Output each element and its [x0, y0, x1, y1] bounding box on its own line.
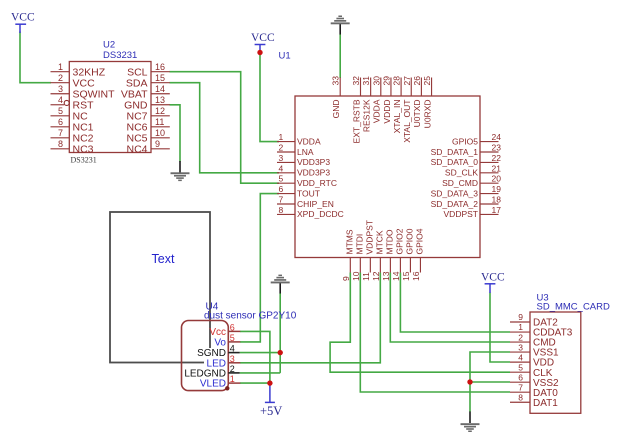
- svg-text:19: 19: [492, 184, 502, 194]
- U2 pin 13 GND: [124, 95, 170, 111]
- svg-text:13: 13: [155, 95, 165, 105]
- U1 pin 1 VDDA: [277, 132, 321, 146]
- svg-text:TOUT: TOUT: [297, 188, 320, 198]
- svg-text:VCC: VCC: [251, 32, 275, 44]
- wire U4 LEDGND to ground vertical: [240, 372, 281, 374]
- svg-text:33: 33: [331, 76, 341, 86]
- svg-text:SD_DATA_0: SD_DATA_0: [431, 157, 479, 167]
- svg-text:SD_CLK: SD_CLK: [445, 168, 478, 178]
- U1 pin 14 GPIO2 (bottom): [391, 228, 405, 281]
- svg-text:Text: Text: [152, 252, 175, 266]
- U2 pin 2 VCC: [51, 73, 96, 89]
- U1 pin 33 GND (top): [331, 76, 341, 119]
- U3 pin 9 DAT2: [510, 312, 558, 328]
- white patch under SGND label: [194, 348, 228, 361]
- svg-text:NC3: NC3: [73, 143, 94, 155]
- U2 pin 4 RST: [51, 95, 95, 111]
- svg-text:14: 14: [391, 271, 401, 281]
- wire U3 VSS1 down to ground: [470, 352, 510, 412]
- wire U4 SGND to ground junction: [240, 352, 281, 354]
- svg-text:22: 22: [492, 153, 502, 163]
- svg-text:16: 16: [411, 271, 421, 281]
- U3 pin 5 CLK: [510, 362, 553, 378]
- svg-text:VDDPST: VDDPST: [365, 220, 375, 254]
- svg-text:15: 15: [401, 271, 411, 281]
- svg-text:28: 28: [392, 76, 402, 86]
- svg-text:29: 29: [381, 76, 391, 86]
- svg-text:15: 15: [155, 73, 165, 83]
- wire U1 MTDI pin10 to U3 DAT0: [360, 273, 510, 393]
- wire U1 GPIO2 pin14 to U3 CDDAT3: [400, 273, 510, 333]
- power symbol +5V (below U4): [260, 383, 282, 418]
- U1 pin 5 VDD_RTC: [277, 174, 337, 188]
- U4 pin 1 VLED: [200, 374, 240, 390]
- svg-text:6: 6: [58, 117, 63, 127]
- wire VCC to U1 VDDA: [260, 53, 279, 142]
- white patch under LED label: [204, 357, 228, 371]
- svg-text:U0TXD: U0TXD: [412, 100, 422, 128]
- svg-text:4: 4: [230, 344, 235, 354]
- U1 pin 11 VDDPST (bottom): [361, 220, 375, 281]
- svg-text:26: 26: [412, 76, 422, 86]
- U1 pin 9 MTMS (bottom): [341, 229, 355, 281]
- wire U2 SCL to U1 VDD_RTC: [170, 72, 280, 184]
- svg-text:9: 9: [518, 312, 523, 322]
- svg-text:+5V: +5V: [260, 404, 282, 418]
- U1 pin 6 TOUT: [277, 184, 320, 198]
- svg-text:SD_DATA_1: SD_DATA_1: [431, 147, 479, 157]
- U1 pin 4 VDD3P3: [277, 163, 330, 177]
- U2 pin 5 NC: [51, 106, 89, 122]
- wire U2 GND to earth: [170, 105, 181, 162]
- svg-text:U2: U2: [103, 40, 115, 51]
- svg-text:GND: GND: [331, 100, 341, 119]
- svg-text:16: 16: [155, 62, 165, 72]
- svg-text:VCC: VCC: [481, 272, 505, 284]
- U1 pin 20 SD_CMD: [442, 174, 501, 188]
- svg-text:14: 14: [155, 84, 165, 94]
- U4 pin 2 LEDGND: [184, 364, 239, 380]
- U1 pin 10 MTDI (bottom): [351, 234, 365, 281]
- U1 pin 26 U0TXD (top): [412, 76, 422, 128]
- wire U1 MTDO pin13 to U3 CMD: [390, 273, 510, 343]
- svg-text:DAT1: DAT1: [533, 398, 558, 409]
- U3 pin 1 CDDAT3: [510, 322, 573, 338]
- U1 pin 22 SD_DATA_0: [431, 153, 502, 167]
- U1 pin 25 U0RXD (top): [422, 76, 432, 129]
- svg-text:2: 2: [58, 73, 63, 83]
- svg-text:13: 13: [381, 271, 391, 281]
- svg-text:5: 5: [230, 333, 235, 343]
- ground earth (bottom right, U3 VSS): [461, 412, 480, 433]
- svg-text:Vo: Vo: [214, 337, 226, 348]
- svg-text:VDDPST: VDDPST: [444, 209, 478, 219]
- U2 pin 11 NC6: [126, 117, 169, 133]
- svg-text:5: 5: [58, 106, 63, 116]
- U1 pin 19 SD_DATA_3: [431, 184, 502, 198]
- svg-text:3: 3: [518, 342, 523, 352]
- svg-text:RES12K: RES12K: [361, 99, 371, 132]
- U1 pin 8 XPD_DCDC: [277, 205, 344, 219]
- svg-text:8: 8: [518, 392, 523, 402]
- U1 pin 31 RES12K (top): [361, 76, 371, 132]
- junction dot VSS2/ground: [467, 379, 472, 384]
- U4 pin 6 Vcc: [209, 322, 240, 338]
- svg-text:1: 1: [518, 322, 523, 332]
- U1 pin 23 SD_DATA_1: [431, 143, 502, 157]
- svg-text:10: 10: [351, 271, 361, 281]
- U2 pin 15 SDA: [126, 73, 170, 89]
- wire U3 VSS2 to ground vertical: [470, 381, 510, 383]
- ground earth (middle, dust sensor SGND): [271, 275, 290, 294]
- wire U2 SDA to U1 VDD3P3: [170, 83, 280, 173]
- junction dot VCC/U1: [257, 50, 262, 55]
- wire VCC to U2 pin2: [20, 32, 51, 83]
- svg-text:GPIO4: GPIO4: [415, 228, 425, 254]
- U1 pin 12 MTCK (bottom): [371, 230, 385, 281]
- svg-text:2: 2: [518, 332, 523, 342]
- wire U1 MTMS pin9 to U3 CLK: [330, 273, 510, 373]
- svg-text:2: 2: [230, 364, 235, 374]
- svg-text:3: 3: [58, 84, 63, 94]
- svg-text:7: 7: [279, 195, 284, 205]
- svg-text:31: 31: [361, 76, 371, 86]
- U1 pin 32 EXT_RSTB (top): [351, 76, 361, 144]
- svg-text:1: 1: [58, 62, 63, 72]
- U1 pin 15 GPIO0 (bottom): [401, 228, 415, 281]
- svg-text:SD_MMC_CARD: SD_MMC_CARD: [537, 302, 611, 313]
- U2 pin 10 NC5: [126, 128, 169, 144]
- svg-text:LNA: LNA: [297, 147, 314, 157]
- svg-text:23: 23: [492, 143, 502, 153]
- U1 pin 7 CHIP_EN: [277, 195, 334, 209]
- svg-text:U1: U1: [279, 51, 291, 62]
- power symbol VCC (above U1): [251, 32, 275, 53]
- U2 pin 6 NC1: [51, 117, 94, 133]
- svg-text:Vcc: Vcc: [209, 327, 226, 338]
- svg-text:6: 6: [518, 372, 523, 382]
- U1 pin 16 GPIO4 (bottom): [411, 228, 425, 281]
- svg-text:MTCK: MTCK: [375, 230, 385, 254]
- U1 pin 29 VDDD (top): [381, 76, 391, 124]
- svg-text:17: 17: [492, 205, 502, 215]
- U2 pin 12 NC7: [126, 106, 169, 122]
- U1 pin 2 LNA: [277, 143, 314, 157]
- junction dot +5V/VLED: [267, 380, 272, 385]
- svg-text:CHIP_EN: CHIP_EN: [297, 199, 334, 209]
- wire mid earth down through SGND junction to LEDGND row: [279, 293, 281, 373]
- wire U1 TOUT to U4 Vo: [240, 194, 279, 342]
- svg-text:21: 21: [492, 163, 502, 173]
- svg-text:18: 18: [492, 195, 502, 205]
- svg-text:7: 7: [58, 128, 63, 138]
- svg-text:SD_CMD: SD_CMD: [442, 178, 478, 188]
- svg-text:3: 3: [279, 153, 284, 163]
- svg-text:8: 8: [58, 139, 63, 149]
- power symbol VCC (above U3): [481, 272, 505, 294]
- U1 pin 28 XTAL_IN (top): [392, 76, 402, 134]
- U3 pin 8 DAT1: [510, 392, 558, 408]
- svg-text:MTMS: MTMS: [345, 229, 355, 254]
- U3 pin 2 CMD: [510, 332, 556, 348]
- ground earth (below U2 GND): [171, 161, 190, 181]
- svg-text:8: 8: [279, 205, 284, 215]
- svg-text:9: 9: [341, 276, 351, 281]
- U4 pin 5 Vo: [214, 333, 240, 349]
- svg-text:MTDI: MTDI: [355, 234, 365, 255]
- svg-text:SD_DATA_2: SD_DATA_2: [431, 199, 479, 209]
- U1 pin 21 SD_CLK: [445, 163, 501, 177]
- junction dot SGND/ground: [278, 350, 283, 355]
- svg-text:dust sensor GP2Y10: dust sensor GP2Y10: [204, 311, 297, 322]
- U1 pin 24 GPIO5: [452, 132, 501, 146]
- U2 pin 9 NC4: [126, 139, 169, 155]
- svg-text:XTAL_OUT: XTAL_OUT: [402, 100, 412, 143]
- svg-text:30: 30: [371, 76, 381, 86]
- svg-text:DS3231: DS3231: [103, 50, 137, 61]
- svg-text:4: 4: [518, 352, 523, 362]
- U2 pin 8 NC3: [51, 139, 94, 155]
- wire top earth to U1 GND pin33: [339, 34, 341, 78]
- svg-text:2: 2: [279, 143, 284, 153]
- svg-text:U0RXD: U0RXD: [422, 100, 432, 129]
- svg-text:VDD_RTC: VDD_RTC: [297, 178, 337, 188]
- svg-text:10: 10: [155, 128, 165, 138]
- U3 pin 3 VSS1: [510, 342, 559, 358]
- svg-text:GPIO2: GPIO2: [395, 228, 405, 254]
- U2 pin 16 SCL: [127, 62, 170, 78]
- svg-text:XPD_DCDC: XPD_DCDC: [297, 209, 344, 219]
- svg-text:VDDA: VDDA: [297, 136, 321, 146]
- svg-text:5: 5: [518, 362, 523, 372]
- text frame rectangle: [110, 212, 210, 363]
- U3 pin 7 DAT0: [510, 382, 558, 398]
- svg-text:NC4: NC4: [126, 143, 147, 155]
- U2 pin 1 32KHZ: [51, 62, 106, 78]
- svg-text:VDD3P3: VDD3P3: [297, 157, 330, 167]
- wire U4 LED to U1 MTCK pin12: [240, 273, 380, 363]
- U1 pin 3 VDD3P3: [277, 153, 330, 167]
- U1 pin 18 SD_DATA_2: [431, 195, 502, 209]
- svg-text:VDDA: VDDA: [372, 99, 382, 123]
- wire U4 Vcc down to +5V junction: [240, 331, 270, 383]
- svg-text:7: 7: [518, 382, 523, 392]
- U2 pin 7 NC2: [51, 128, 94, 144]
- svg-text:32: 32: [351, 76, 361, 86]
- IC U4 dust sensor body: [182, 321, 229, 391]
- U1 pin 27 XTAL_OUT (top): [402, 76, 412, 143]
- svg-text:6: 6: [230, 322, 235, 332]
- svg-text:20: 20: [492, 174, 502, 184]
- svg-text:GPIO5: GPIO5: [452, 136, 478, 146]
- U2 pin 14 VBAT: [121, 84, 170, 100]
- svg-text:27: 27: [402, 76, 412, 86]
- svg-text:1: 1: [279, 132, 284, 142]
- svg-text:VDD3P3: VDD3P3: [297, 168, 330, 178]
- svg-text:1: 1: [230, 374, 235, 384]
- U3 pin 4 VDD: [510, 352, 554, 368]
- U4 pin 4 SGND: [197, 344, 240, 360]
- svg-text:5: 5: [279, 174, 284, 184]
- svg-text:GPIO0: GPIO0: [405, 228, 415, 254]
- U2 pin 3 SQWINT: [51, 84, 116, 100]
- svg-text:4: 4: [58, 95, 63, 105]
- wire U4 VLED to +5V junction: [240, 382, 270, 384]
- svg-text:3: 3: [230, 354, 235, 364]
- U4 corner dot: [225, 386, 229, 390]
- svg-text:VLED: VLED: [200, 379, 226, 390]
- U1 pin 13 MTDO (bottom): [381, 229, 395, 281]
- svg-text:VDDD: VDDD: [382, 100, 392, 124]
- svg-text:24: 24: [492, 132, 502, 142]
- U1 pin 30 VDDA (top): [371, 76, 381, 123]
- svg-text:4: 4: [279, 163, 284, 173]
- wire VCC to U3 VDD: [490, 293, 510, 363]
- svg-text:EXT_RSTB: EXT_RSTB: [351, 99, 361, 143]
- ground earth (top, U1 GND): [331, 16, 350, 35]
- svg-text:11: 11: [361, 272, 371, 281]
- svg-text:6: 6: [279, 184, 284, 194]
- power symbol VCC (top left): [11, 12, 35, 34]
- svg-text:DS3231: DS3231: [71, 156, 97, 165]
- IC U3 SD_MMC_CARD body: [530, 312, 581, 413]
- U1 pin 17 VDDPST: [444, 205, 502, 219]
- svg-text:11: 11: [155, 117, 164, 127]
- svg-text:9: 9: [155, 139, 160, 149]
- U3 pin 6 VSS2: [510, 372, 559, 388]
- IC U2 DS3231 body: [69, 62, 151, 153]
- U4 pin 3 LED: [207, 354, 241, 370]
- svg-text:25: 25: [422, 76, 432, 86]
- svg-text:SD_DATA_3: SD_DATA_3: [431, 188, 479, 198]
- svg-text:12: 12: [155, 106, 165, 116]
- IC U1 body: [295, 96, 480, 258]
- svg-text:MTDO: MTDO: [385, 229, 395, 254]
- svg-text:VCC: VCC: [11, 12, 35, 24]
- svg-text:XTAL_IN: XTAL_IN: [392, 100, 402, 134]
- svg-text:12: 12: [371, 271, 381, 281]
